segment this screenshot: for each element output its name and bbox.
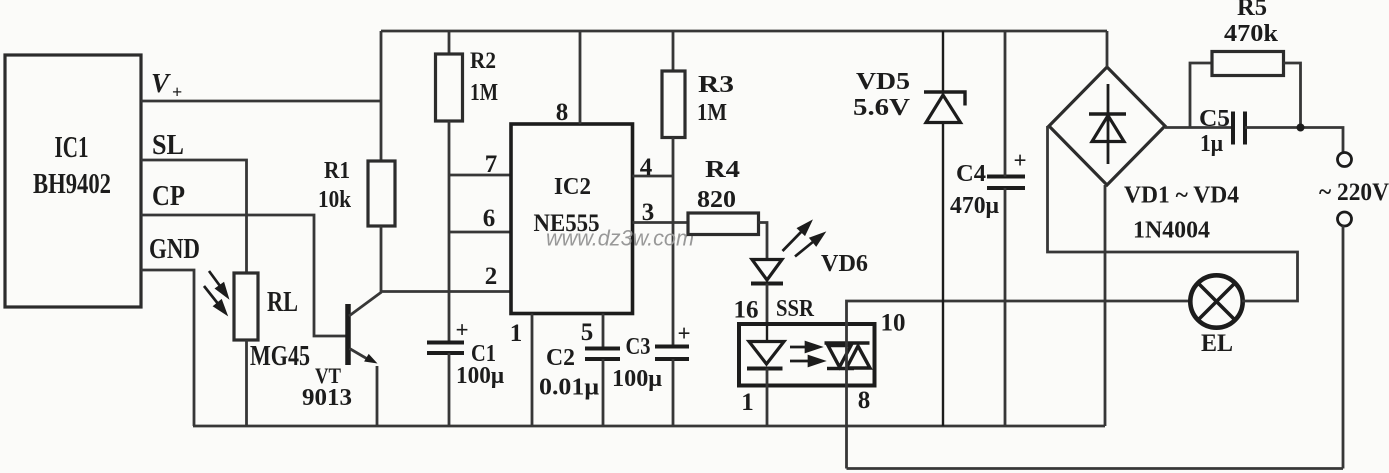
capacitor C2: [585, 349, 620, 360]
svg-text:1M: 1M: [470, 80, 498, 106]
svg-text:5: 5: [581, 319, 594, 346]
wire R5 branch right: [1284, 63, 1301, 128]
wire bridge AC1 to C5: [1165, 126, 1233, 129]
SSR triac: [825, 343, 871, 369]
svg-text:1M: 1M: [697, 100, 727, 126]
wire emitter to ground rail: [376, 366, 379, 426]
svg-text:VD5: VD5: [856, 69, 910, 95]
resistor R1: [368, 161, 395, 226]
svg-text:+: +: [455, 318, 468, 343]
svg-text:C2: C2: [546, 345, 575, 371]
wire R5 branch left: [1190, 63, 1212, 128]
svg-text:10: 10: [881, 310, 906, 337]
node wire to IC2 pin 2: [380, 290, 511, 293]
bottom return rail: [847, 467, 1344, 470]
wire C1 to ground rail: [448, 353, 451, 426]
resistor R3: [662, 71, 685, 138]
wire SL: [141, 160, 247, 273]
terminal upper: [1338, 153, 1352, 167]
triac bar wire inside SSR: [845, 324, 848, 386]
svg-text:8: 8: [556, 99, 569, 126]
transistor VT emitter: [350, 349, 378, 364]
transistor VT base bar: [345, 304, 351, 365]
svg-text:8: 8: [858, 387, 871, 414]
svg-text:100μ: 100μ: [456, 363, 504, 389]
pin label V+: [151, 68, 182, 102]
SSR internal LED: [747, 324, 784, 369]
wire C2 to ground rail: [602, 359, 605, 426]
svg-text:820: 820: [697, 187, 736, 213]
svg-text:C3: C3: [626, 334, 651, 360]
wire pin 5: [602, 314, 605, 349]
svg-text:5.6V: 5.6V: [853, 95, 911, 121]
LED VD6: [751, 260, 783, 284]
wire RL to ground rail: [245, 340, 248, 426]
svg-text:VD1 ~ VD4: VD1 ~ VD4: [1124, 183, 1239, 209]
wire R4 to VD6: [759, 223, 768, 260]
svg-text:3: 3: [642, 199, 655, 226]
svg-text:1: 1: [741, 389, 754, 416]
lamp EL: [1190, 275, 1242, 327]
svg-text:RL: RL: [267, 287, 298, 318]
wire SSR LED to ground rail: [766, 369, 769, 427]
wire top rail to R3: [672, 31, 675, 71]
svg-text:+: +: [172, 82, 182, 102]
wire top rail to R1: [380, 31, 383, 161]
svg-text:IC1: IC1: [55, 129, 89, 164]
top supply rail: [381, 30, 1107, 33]
svg-text:R1: R1: [324, 158, 350, 184]
svg-text:~ 220V: ~ 220V: [1319, 179, 1389, 206]
svg-text:MG45: MG45: [250, 341, 310, 372]
svg-text:C4: C4: [956, 161, 986, 187]
wire C5 to terminal: [1245, 128, 1343, 153]
junction node: [1297, 124, 1305, 132]
zener VD5: [924, 31, 965, 426]
svg-text:GND: GND: [149, 233, 200, 265]
svg-text:7: 7: [485, 151, 498, 178]
capacitor C3: [655, 347, 689, 360]
resistor R2: [436, 54, 463, 121]
svg-text:EL: EL: [1201, 330, 1233, 357]
svg-text:470k: 470k: [1224, 21, 1279, 47]
capacitor C5: [1233, 112, 1245, 145]
wire VD6 to SSR pin 16: [766, 284, 769, 325]
wire SSR pin 10 up: [847, 301, 1192, 324]
svg-text:SL: SL: [152, 129, 184, 161]
svg-text:www.dz3w.com: www.dz3w.com: [546, 226, 694, 251]
wire lower terminal down: [1342, 226, 1345, 469]
svg-text:C5: C5: [1199, 106, 1230, 132]
wire SSR pin 8 down: [845, 386, 848, 469]
wire top rail to R2: [448, 31, 451, 54]
wire V+: [141, 100, 381, 103]
wire CP: [141, 215, 348, 336]
svg-text:R4: R4: [705, 157, 740, 183]
svg-text:R3: R3: [698, 72, 734, 98]
svg-text:0.01μ: 0.01μ: [539, 375, 599, 401]
wire pin 3: [633, 221, 689, 224]
svg-text:VD6: VD6: [821, 251, 868, 277]
svg-text:BH9402: BH9402: [33, 168, 111, 200]
svg-text:6: 6: [483, 205, 496, 232]
SSR coupling arrows: [790, 343, 823, 366]
bridge inner diode: [1089, 84, 1126, 164]
wire R3 down to C3: [672, 138, 675, 347]
svg-text:470μ: 470μ: [950, 193, 999, 219]
svg-text:16: 16: [734, 297, 759, 324]
photoresistor RL: [234, 273, 258, 340]
bridge rectifier VD1-VD4 diamond: [1049, 67, 1165, 185]
ground rail: [193, 425, 1105, 428]
capacitor C4: [987, 177, 1025, 189]
wire C3 to ground rail: [672, 359, 675, 426]
svg-text:1: 1: [510, 320, 523, 347]
svg-text:1N4004: 1N4004: [1133, 218, 1210, 244]
wire pin 4: [633, 175, 674, 178]
wire GND: [141, 270, 194, 426]
svg-text:100μ: 100μ: [612, 366, 662, 392]
svg-text:10k: 10k: [318, 187, 352, 213]
wire R2 column down to C1: [448, 121, 451, 343]
wire pin 6: [449, 231, 511, 234]
resistor R5: [1212, 52, 1284, 76]
svg-text:+: +: [677, 321, 690, 346]
svg-text:IC2: IC2: [554, 174, 591, 200]
wire top rail to C4: [1004, 31, 1007, 177]
transistor VT collector: [349, 292, 382, 316]
wire lamp to bridge AC2: [1048, 126, 1298, 301]
resistor R4: [688, 213, 759, 235]
wire bridge top to rail: [1106, 31, 1109, 67]
svg-text:R2: R2: [470, 48, 496, 73]
svg-text:2: 2: [485, 263, 498, 290]
IC2 box: [511, 124, 633, 314]
wire pin 7: [449, 174, 511, 177]
wire R1 to node: [380, 226, 383, 293]
light arrows into RL: [204, 271, 227, 313]
IC1 box: [5, 55, 141, 307]
svg-text:CP: CP: [152, 180, 185, 212]
VD6 light arrows: [783, 223, 824, 257]
svg-text:+: +: [1013, 148, 1026, 173]
svg-text:SSR: SSR: [776, 296, 815, 322]
wire pin 8: [579, 31, 582, 124]
svg-text:4: 4: [640, 154, 653, 181]
terminal lower: [1338, 212, 1352, 226]
svg-text:1μ: 1μ: [1200, 131, 1223, 157]
capacitor C1: [427, 343, 464, 354]
wire C4 to ground rail: [1004, 188, 1007, 426]
wire pin 1: [531, 314, 534, 427]
svg-text:9013: 9013: [302, 385, 352, 411]
wire bridge bottom to ground rail: [1104, 185, 1107, 426]
SSR box: [739, 324, 875, 386]
svg-text:V: V: [151, 68, 171, 98]
svg-text:R5: R5: [1237, 0, 1267, 21]
